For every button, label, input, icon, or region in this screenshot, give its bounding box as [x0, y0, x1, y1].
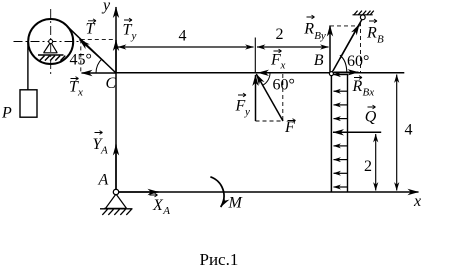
svg-text:4: 4 [179, 28, 187, 45]
label YA [93, 131, 109, 157]
label T [86, 19, 97, 38]
svg-text:P: P [1, 105, 12, 122]
RB projection dashes [330, 22, 361, 73]
pulley pin [49, 40, 53, 44]
svg-text:y: y [244, 106, 250, 118]
svg-text:60°: 60° [273, 77, 295, 94]
label F [284, 119, 296, 136]
svg-text:60°: 60° [347, 53, 369, 70]
force T arrow [80, 39, 105, 61]
rope from pulley to weight [27, 42, 29, 90]
pulley centerlines [14, 9, 85, 74]
component Tx arrow [82, 72, 117, 74]
distributed load arrows [334, 75, 348, 187]
distributed load line [347, 74, 349, 192]
svg-text:B: B [314, 52, 324, 69]
bottom chord and x axis [116, 191, 419, 193]
svg-text:45°: 45° [70, 52, 92, 69]
reaction RBy arrow [329, 26, 331, 73]
svg-text:Q: Q [365, 108, 377, 125]
T projection dashes [81, 39, 116, 72]
label Q [365, 105, 377, 125]
svg-text:2: 2 [364, 158, 372, 175]
svg-text:A: A [100, 145, 108, 157]
label Fy [235, 93, 251, 118]
svg-text:R: R [366, 25, 377, 42]
label RBx [352, 76, 375, 99]
force F arrow [256, 74, 283, 121]
dimension 4 top [118, 46, 254, 48]
label Ty [123, 18, 137, 42]
svg-text:Bx: Bx [363, 87, 375, 99]
label RBy [303, 15, 326, 42]
label Fx [270, 49, 286, 71]
60 degree arc at B [340, 55, 347, 72]
svg-text:4: 4 [405, 122, 413, 139]
svg-text:x: x [280, 60, 286, 72]
F projection dashes [256, 74, 283, 121]
pin circle at A [113, 189, 118, 194]
svg-text:B: B [377, 34, 384, 46]
top chord CB with extension to right [116, 72, 404, 74]
reaction YA arrow [115, 145, 117, 193]
svg-text:F: F [270, 52, 281, 69]
right member below B [330, 74, 332, 192]
upper support pin [360, 15, 365, 20]
rod link to upper support [331, 18, 362, 74]
svg-text:T: T [86, 21, 96, 38]
svg-text:2: 2 [276, 26, 284, 43]
svg-text:C: C [106, 75, 117, 92]
component Fy arrow [255, 75, 257, 121]
svg-text:x: x [413, 193, 421, 210]
dimension 2 top [257, 46, 329, 48]
component Ty arrow [115, 40, 117, 72]
weight P box [20, 90, 37, 117]
svg-text:X: X [152, 197, 164, 214]
upper support hatching [353, 11, 374, 15]
resultant Q arrow [333, 131, 381, 133]
label XA [150, 193, 171, 217]
reaction XA arrow [116, 191, 159, 193]
svg-text:F: F [235, 98, 246, 115]
dimension 2 right [375, 134, 377, 191]
svg-text:Рис.1: Рис.1 [200, 250, 239, 269]
svg-text:R: R [352, 78, 363, 95]
label Tx [69, 77, 83, 99]
svg-text:A: A [162, 205, 170, 217]
reaction RB arrow [340, 24, 359, 58]
pulley wheel [28, 19, 73, 64]
60 degree arc at F [263, 73, 270, 85]
45 degree arc [96, 59, 102, 73]
svg-text:x: x [77, 87, 83, 99]
label RB [366, 19, 384, 45]
svg-text:y: y [131, 30, 137, 42]
pin support at A [100, 194, 133, 215]
svg-text:By: By [314, 30, 326, 42]
pulley bracket support [38, 42, 65, 61]
rope from pulley to C [67, 26, 116, 73]
pin circle at B [329, 72, 333, 76]
svg-text:M: M [228, 195, 244, 212]
extension tick above F point [254, 38, 256, 73]
svg-text:y: y [101, 0, 111, 14]
y axis with left member AC [115, 7, 117, 192]
svg-text:R: R [303, 21, 314, 38]
reaction RBx arrow [334, 71, 359, 73]
component Fx arrow [258, 72, 276, 74]
svg-text:A: A [98, 172, 109, 189]
moment M arc [210, 177, 224, 207]
dimension 4 right [396, 75, 398, 191]
